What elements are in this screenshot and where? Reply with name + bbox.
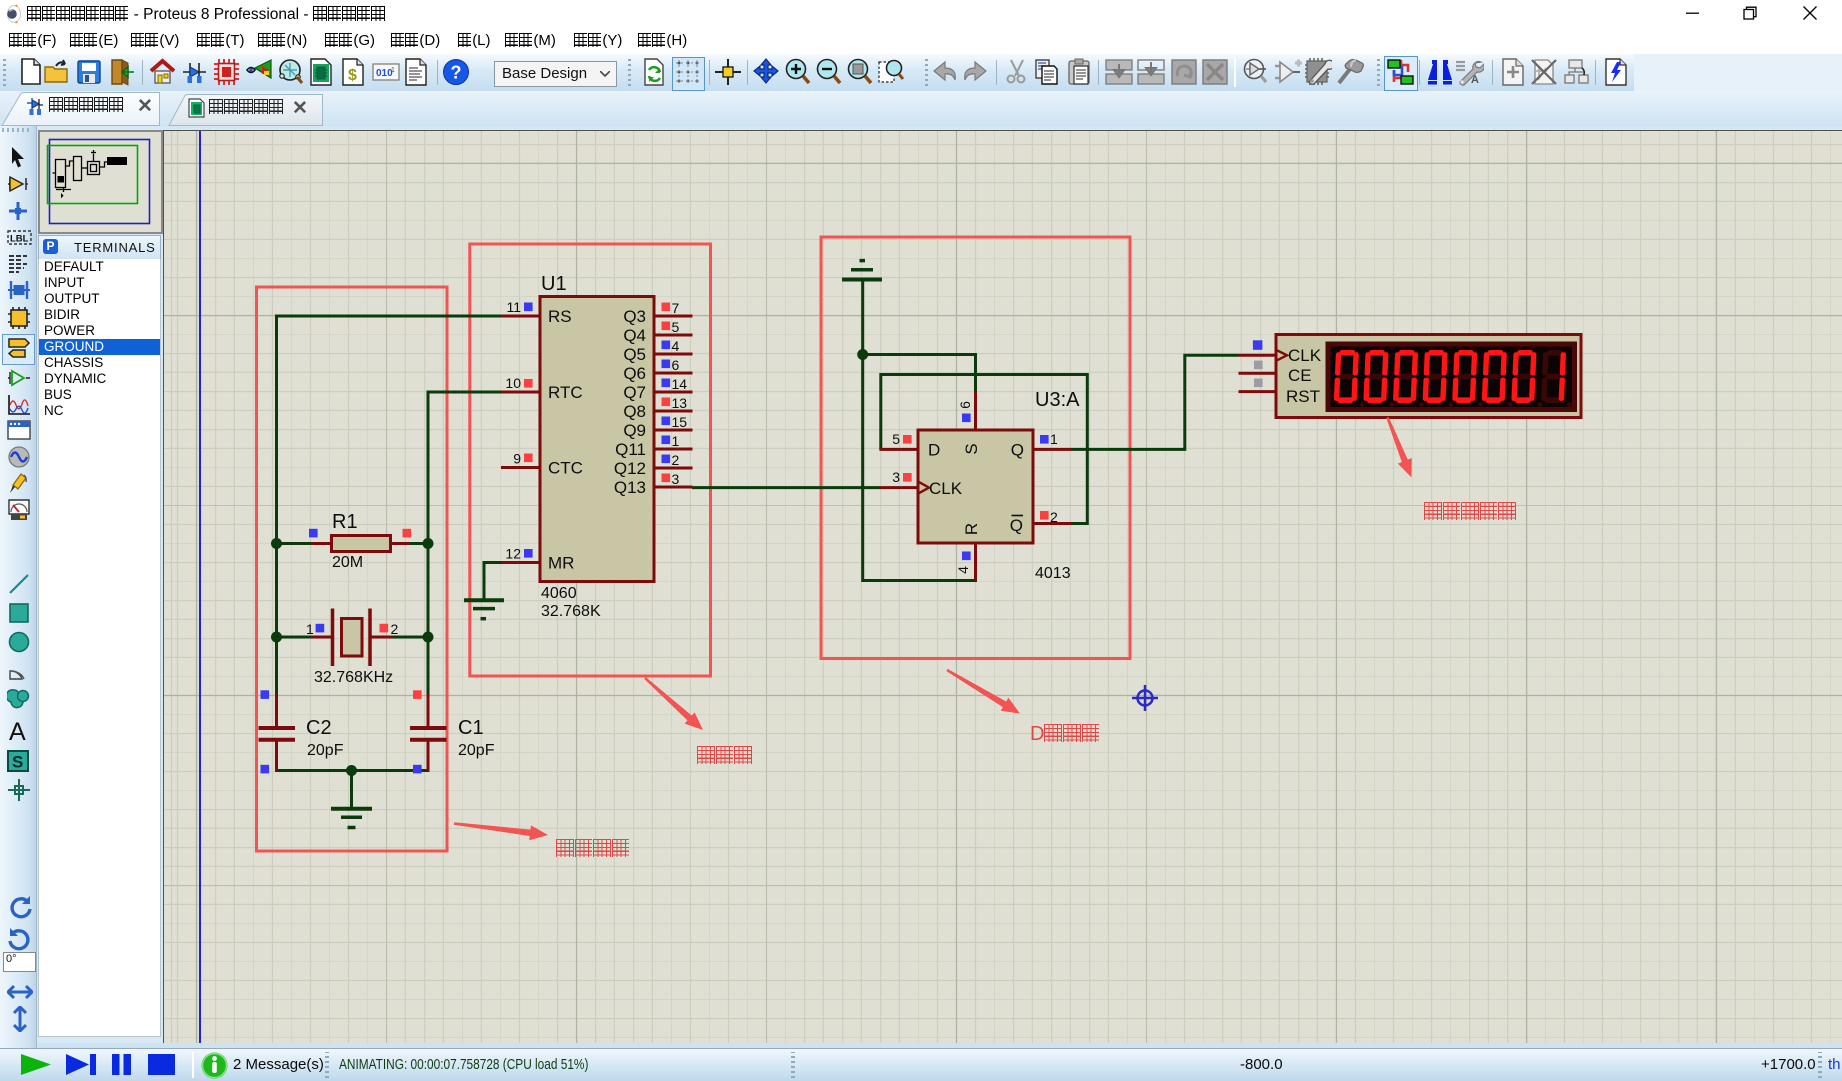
svg-text:CTC: CTC xyxy=(548,459,583,478)
svg-text:11: 11 xyxy=(506,299,521,315)
svg-text:4060: 4060 xyxy=(541,585,577,602)
svg-text:4: 4 xyxy=(955,566,971,574)
svg-text:D: D xyxy=(928,441,940,460)
svg-text:2: 2 xyxy=(1050,509,1058,525)
svg-text:9: 9 xyxy=(513,451,521,467)
svg-text:5: 5 xyxy=(892,431,900,447)
svg-text:A: A xyxy=(1471,74,1479,86)
svg-text:U3:A: U3:A xyxy=(1035,389,1080,411)
svg-text:R: R xyxy=(962,523,981,535)
svg-text:Q4: Q4 xyxy=(623,326,646,345)
svg-text:Q8: Q8 xyxy=(623,402,646,421)
svg-text:3: 3 xyxy=(672,471,680,487)
svg-text:A: A xyxy=(9,718,26,744)
svg-text:CLK: CLK xyxy=(1288,346,1322,365)
svg-text:Q12: Q12 xyxy=(614,459,646,478)
svg-text:Q3: Q3 xyxy=(623,307,646,326)
svg-text:Q: Q xyxy=(1010,516,1023,535)
svg-text:4013: 4013 xyxy=(1035,565,1071,582)
svg-text:RS: RS xyxy=(548,307,572,326)
svg-text:1: 1 xyxy=(1050,431,1058,447)
svg-text:C2: C2 xyxy=(306,717,332,739)
svg-text:Q13: Q13 xyxy=(614,478,646,497)
svg-text:MR: MR xyxy=(548,554,574,573)
svg-text:?: ? xyxy=(451,63,462,83)
svg-text:C1: C1 xyxy=(458,717,484,739)
svg-text:CLK: CLK xyxy=(929,479,963,498)
svg-text:20pF: 20pF xyxy=(458,742,495,759)
svg-text:S: S xyxy=(12,753,23,772)
svg-text:1: 1 xyxy=(306,621,314,637)
svg-text:20pF: 20pF xyxy=(307,742,344,759)
svg-text:1: 1 xyxy=(672,433,680,449)
svg-text:Q7: Q7 xyxy=(623,383,646,402)
svg-text:32.768KHz: 32.768KHz xyxy=(314,669,393,686)
svg-text:14: 14 xyxy=(672,376,688,392)
svg-text:6: 6 xyxy=(957,401,973,409)
svg-text:10: 10 xyxy=(505,375,521,391)
svg-text:15: 15 xyxy=(672,414,688,430)
svg-text:13: 13 xyxy=(672,395,688,411)
svg-text:Q: Q xyxy=(1011,441,1024,460)
svg-text:RST: RST xyxy=(1286,387,1320,406)
svg-text:6: 6 xyxy=(672,357,680,373)
svg-text:Q11: Q11 xyxy=(615,440,646,459)
svg-text:2: 2 xyxy=(672,452,680,468)
svg-text:$: $ xyxy=(348,67,357,84)
svg-text:Q5: Q5 xyxy=(623,345,646,364)
svg-text:32.768K: 32.768K xyxy=(541,603,601,620)
svg-text:Q9: Q9 xyxy=(623,421,646,440)
svg-text:2: 2 xyxy=(391,621,399,637)
svg-text:20M: 20M xyxy=(332,554,363,571)
svg-text:LBL: LBL xyxy=(10,234,29,245)
svg-text:S: S xyxy=(962,443,981,454)
svg-text:RTC: RTC xyxy=(548,383,583,402)
svg-text:Q6: Q6 xyxy=(623,364,646,383)
svg-text:7: 7 xyxy=(672,300,680,316)
svg-text:CE: CE xyxy=(1288,366,1312,385)
svg-text:12: 12 xyxy=(505,546,521,562)
svg-text:1: 1 xyxy=(391,67,395,74)
svg-text:R1: R1 xyxy=(332,511,358,533)
svg-text:U1: U1 xyxy=(541,273,567,295)
svg-text:5: 5 xyxy=(672,319,680,335)
svg-text:3: 3 xyxy=(892,469,900,485)
svg-text:4: 4 xyxy=(672,338,680,354)
